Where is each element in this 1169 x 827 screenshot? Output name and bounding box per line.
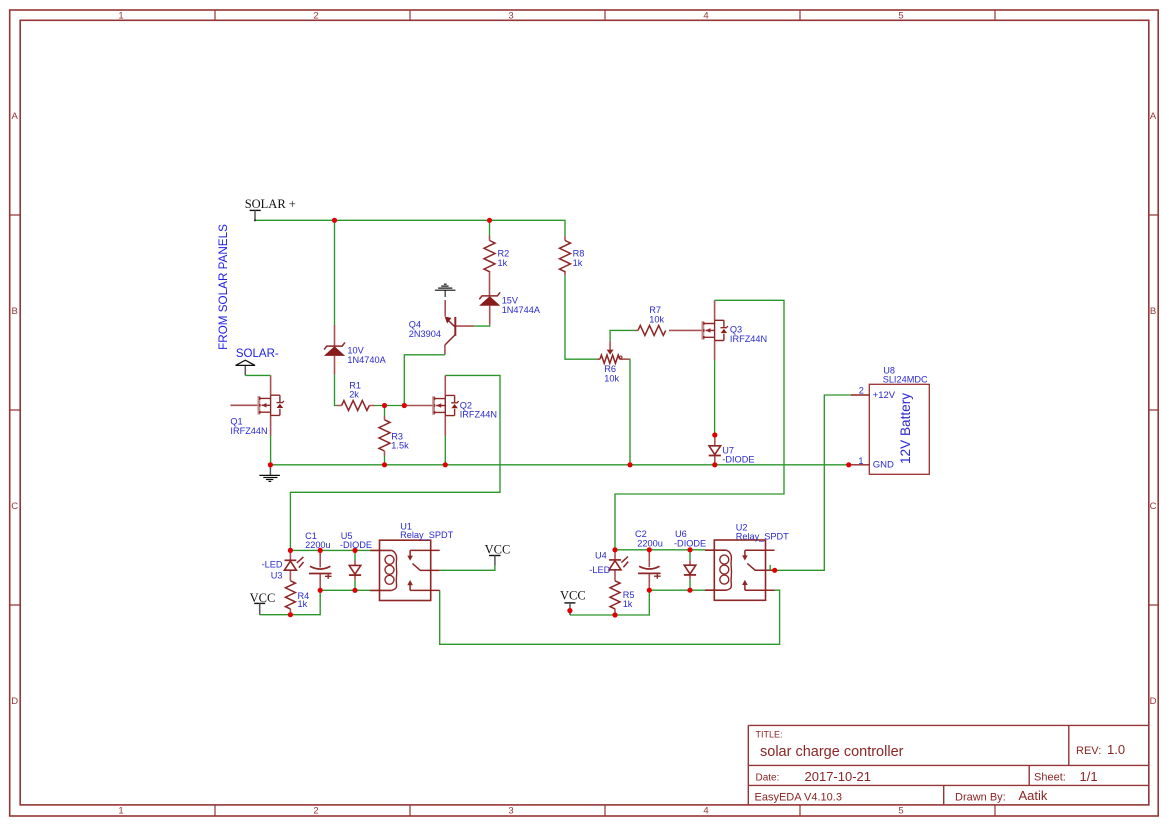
svg-text:1.5k: 1.5k: [391, 441, 409, 451]
svg-text:2: 2: [313, 806, 318, 817]
svg-text:VCC: VCC: [250, 591, 276, 605]
svg-text:SOLAR +: SOLAR +: [245, 197, 296, 211]
svg-text:U4: U4: [595, 551, 607, 561]
svg-text:1: 1: [118, 806, 123, 817]
svg-text:-DIODE: -DIODE: [674, 538, 706, 548]
svg-text:Drawn By:: Drawn By:: [955, 792, 1006, 804]
svg-text:A: A: [12, 111, 19, 122]
svg-text:2: 2: [313, 10, 318, 21]
svg-text:R6: R6: [604, 364, 616, 374]
svg-text:-LED: -LED: [262, 559, 283, 569]
svg-text:Sheet:: Sheet:: [1034, 772, 1066, 784]
svg-text:1k: 1k: [298, 599, 308, 609]
svg-text:2: 2: [859, 385, 864, 395]
svg-text:4: 4: [703, 806, 708, 817]
svg-text:C: C: [1150, 501, 1157, 512]
svg-text:REV:: REV:: [1076, 745, 1101, 757]
svg-text:3: 3: [508, 10, 513, 21]
svg-text:5: 5: [898, 806, 903, 817]
svg-text:VCC: VCC: [560, 589, 586, 603]
svg-text:Q3: Q3: [730, 325, 742, 335]
svg-text:2200u: 2200u: [637, 538, 663, 548]
svg-text:1k: 1k: [573, 258, 583, 268]
svg-text:R8: R8: [573, 249, 585, 259]
svg-text:D: D: [11, 696, 18, 707]
svg-text:1: 1: [118, 10, 123, 21]
svg-text:4: 4: [703, 10, 708, 21]
svg-text:2k: 2k: [349, 390, 359, 400]
svg-text:VCC: VCC: [485, 543, 511, 557]
svg-text:solar charge controller: solar charge controller: [760, 744, 904, 760]
svg-text:1/1: 1/1: [1080, 769, 1098, 784]
svg-text:D: D: [1150, 696, 1157, 707]
svg-text:2200u: 2200u: [305, 540, 331, 550]
svg-text:Aatik: Aatik: [1019, 788, 1048, 803]
svg-text:Q1: Q1: [230, 417, 242, 427]
svg-text:SOLAR-: SOLAR-: [236, 348, 279, 360]
svg-text:B: B: [12, 306, 18, 317]
svg-text:B: B: [1150, 306, 1156, 317]
svg-text:-LED: -LED: [589, 565, 610, 575]
svg-text:5: 5: [898, 10, 903, 21]
svg-text:+12V: +12V: [873, 390, 896, 401]
svg-text:12V Battery: 12V Battery: [898, 393, 913, 464]
svg-text:2017-10-21: 2017-10-21: [805, 769, 872, 784]
svg-text:10k: 10k: [604, 374, 619, 384]
svg-text:SLI24MDC: SLI24MDC: [883, 374, 928, 384]
svg-text:Relay_SPDT: Relay_SPDT: [736, 531, 789, 541]
svg-text:1k: 1k: [498, 258, 508, 268]
svg-text:3: 3: [508, 806, 513, 817]
svg-text:Date:: Date:: [756, 772, 780, 783]
svg-text:GND: GND: [873, 460, 894, 471]
svg-text:1.0: 1.0: [1107, 742, 1125, 757]
svg-text:C: C: [11, 501, 18, 512]
svg-text:1k: 1k: [623, 599, 633, 609]
svg-text:TITLE:: TITLE:: [756, 729, 783, 739]
svg-text:FROM SOLAR PANELS: FROM SOLAR PANELS: [217, 224, 230, 350]
svg-text:Relay_SPDT: Relay_SPDT: [400, 530, 453, 540]
svg-text:U3: U3: [271, 570, 283, 580]
svg-text:1: 1: [858, 456, 863, 466]
svg-text:10k: 10k: [649, 314, 664, 324]
svg-text:A: A: [1150, 111, 1157, 122]
svg-text:-DIODE: -DIODE: [722, 454, 754, 464]
svg-text:1N4740A: 1N4740A: [347, 355, 386, 365]
svg-text:EasyEDA V4.10.3: EasyEDA V4.10.3: [755, 791, 842, 803]
svg-text:2N3904: 2N3904: [409, 329, 441, 339]
svg-text:1N4744A: 1N4744A: [502, 305, 541, 315]
svg-text:IRFZ44N: IRFZ44N: [230, 426, 267, 436]
svg-text:IRFZ44N: IRFZ44N: [460, 410, 497, 420]
svg-text:-DIODE: -DIODE: [340, 540, 372, 550]
svg-text:IRFZ44N: IRFZ44N: [730, 334, 767, 344]
svg-text:R2: R2: [498, 249, 510, 259]
